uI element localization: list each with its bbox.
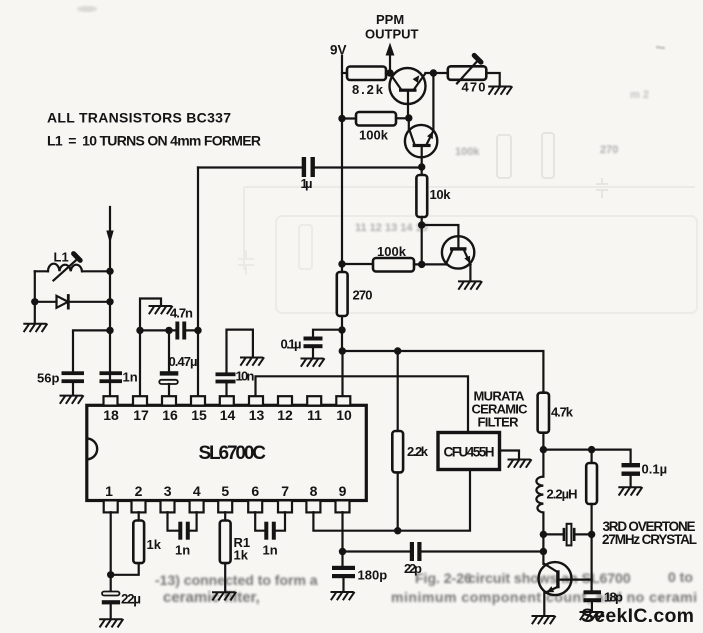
inductor L1 tank left vertical <box>34 271 36 323</box>
capacitor 18p <box>584 590 602 611</box>
svg-text:4: 4 <box>193 483 201 499</box>
svg-text:circuit shows an SL6700: circuit shows an SL6700 <box>468 570 631 586</box>
ground under 22u <box>100 619 123 626</box>
diode D1 <box>35 296 110 309</box>
svg-text:0.47µ: 0.47µ <box>169 354 198 369</box>
wire: 1u coupling line <box>198 166 422 168</box>
capacitor 1u plates <box>302 157 315 177</box>
ground under Q3 <box>459 281 482 288</box>
svg-text:0 to: 0 to <box>668 569 693 585</box>
wire: pin 1 down <box>110 512 112 591</box>
wire: left input vertical with down arrow <box>106 207 113 396</box>
resistor 8.2k <box>342 67 390 81</box>
svg-text:18: 18 <box>103 407 119 423</box>
svg-text:FILTER: FILTER <box>478 415 520 430</box>
svg-text:1k: 1k <box>234 548 249 563</box>
transistor Q3 <box>442 236 474 281</box>
svg-text:6: 6 <box>251 483 259 499</box>
svg-text:L1 = 10 TURNS ON 4mm FORMER: L1 = 10 TURNS ON 4mm FORMER <box>47 133 261 149</box>
pin boxes top row <box>104 396 351 405</box>
node: Q1 junctions <box>386 69 437 76</box>
svg-text:8: 8 <box>310 483 318 499</box>
svg-text:18p: 18p <box>604 590 623 605</box>
svg-text:3: 3 <box>164 483 172 499</box>
node: crystal junctions <box>540 531 596 556</box>
svg-text:0.1µ: 0.1µ <box>642 462 668 477</box>
ground under 0.1u left <box>301 359 324 366</box>
wire: Q1 collector to 470 <box>425 72 447 74</box>
wire: 2.2k drop <box>397 351 399 431</box>
svg-text:11 12 13 14 15: 11 12 13 14 15 <box>355 222 428 234</box>
wire: 9V rail <box>341 56 344 396</box>
wire: pin 8 to filter bottom <box>313 470 470 531</box>
ceramic filter CFU455H box <box>438 433 500 470</box>
svg-text:SeekIC.com: SeekIC.com <box>581 605 694 627</box>
svg-text:10n: 10n <box>236 369 255 384</box>
resistor 10k <box>416 168 427 265</box>
svg-text:m 2: m 2 <box>630 89 649 101</box>
svg-text:270: 270 <box>353 288 373 303</box>
svg-text:CFU455H: CFU455H <box>444 445 495 460</box>
wire: pin 17 vertical and ground bracket <box>140 299 161 397</box>
svg-text:100k: 100k <box>359 128 389 143</box>
svg-text:470: 470 <box>462 80 486 95</box>
node: 2.2k top junction <box>394 347 401 354</box>
node: pin9 junction <box>339 548 346 555</box>
ground at pin 17 bracket <box>149 306 172 313</box>
svg-text:9: 9 <box>339 483 347 499</box>
pin boxes bottom row <box>104 500 350 512</box>
transistor Q4 <box>539 562 592 615</box>
svg-text:12: 12 <box>277 407 293 423</box>
svg-text:100k: 100k <box>455 146 480 158</box>
ground under 0.1u right <box>619 487 642 494</box>
resistor 4.7k <box>538 393 549 450</box>
svg-text:1µ: 1µ <box>301 176 313 191</box>
node: rail junction at 100k <box>338 115 345 122</box>
svg-text:9V: 9V <box>330 43 347 58</box>
capacitor 22p plates <box>410 542 422 561</box>
ground under 56p <box>60 396 83 403</box>
wire: pin 13 to ceramic filter <box>256 376 469 432</box>
svg-text:10: 10 <box>336 407 352 423</box>
svg-text:-13) connected to form a: -13) connected to form a <box>155 572 318 588</box>
node: junctions on oscillator top line <box>540 446 596 453</box>
svg-text:16: 16 <box>162 407 178 423</box>
potentiometer 470 <box>448 55 487 83</box>
svg-text:ALL TRANSISTORS BC337: ALL TRANSISTORS BC337 <box>47 110 231 126</box>
ground under R1 <box>213 592 236 599</box>
crystal X1 <box>543 524 591 546</box>
node: junctions on left vertical <box>31 268 114 335</box>
ground right of filter <box>508 460 531 467</box>
svg-text:SL6700C: SL6700C <box>199 443 267 464</box>
capacitor 1n (pins 3-4) <box>168 512 197 540</box>
svg-text:100k: 100k <box>377 244 407 259</box>
arrow PPM output <box>386 43 395 74</box>
capacitor 10n (pin 14) with ground bracket <box>216 330 253 396</box>
wire: 2.2k bottom <box>397 472 399 530</box>
inductor 2.2uH <box>536 450 543 564</box>
svg-text:4.7k: 4.7k <box>551 405 574 420</box>
svg-text:1: 1 <box>105 483 113 499</box>
svg-text:1k: 1k <box>147 537 162 552</box>
svg-text:OUTPUT: OUTPUT <box>365 27 419 42</box>
node: rail junction at lower 100k <box>338 260 345 267</box>
ground under Q4 <box>532 616 555 623</box>
wire: pin 15 vertical up to 1u line <box>197 168 199 397</box>
wire: L1 top wire <box>35 270 110 272</box>
svg-text:5: 5 <box>221 483 229 499</box>
ground at 10n bracket <box>241 358 264 365</box>
svg-text:1n: 1n <box>175 543 190 558</box>
capacitor 4.7n wire <box>140 329 198 331</box>
capacitor 0.47u (pin 16) electrolytic <box>159 330 178 396</box>
svg-text:PPM: PPM <box>376 12 404 27</box>
svg-text:1n: 1n <box>263 543 278 558</box>
ground under L1 <box>24 324 47 331</box>
pin numbers top row <box>103 407 352 423</box>
bleed-through caption text <box>155 569 697 606</box>
svg-text:2: 2 <box>135 483 143 499</box>
svg-text:270: 270 <box>600 144 618 156</box>
node: Q2 base junction <box>405 114 425 170</box>
capacitor 1n (pin 18) <box>100 371 123 383</box>
svg-text:ceramic filter,: ceramic filter, <box>163 589 260 606</box>
capacitor 180p <box>332 566 355 592</box>
ground under 18p <box>580 612 603 619</box>
svg-text:2.2µH: 2.2µH <box>547 487 578 502</box>
svg-text:17: 17 <box>133 407 149 423</box>
resistor 100k lower <box>342 258 446 272</box>
svg-text:13: 13 <box>249 407 265 423</box>
wire: 22p line pin9 to oscillator <box>343 550 544 552</box>
wire: oscillator top line <box>543 450 630 463</box>
capacitor 1n (pins 6-7) <box>255 512 285 540</box>
node: pin8/2.2k junction <box>394 527 401 534</box>
resistor 1k (pin 2) <box>111 512 144 575</box>
capacitor 0.1u left <box>304 330 343 358</box>
wire: rail branch to 4.7k <box>342 351 543 393</box>
capacitor 0.1u right <box>622 463 641 487</box>
svg-text:7: 7 <box>281 483 289 499</box>
wire: 56p branch <box>73 330 110 371</box>
trimmer arrow of L1 <box>54 254 81 281</box>
svg-text:180p: 180p <box>358 568 388 583</box>
svg-text:8.2k: 8.2k <box>352 82 384 97</box>
node: junctions under 10k <box>418 221 425 268</box>
capacitor 4.7n plates <box>175 322 186 340</box>
svg-text:0.1µ: 0.1µ <box>281 337 302 352</box>
resistor R1 1k (pin 5) <box>220 512 231 592</box>
bleed-through ghost layer (decorative, from page reverse) <box>77 6 697 313</box>
resistor 100k upper <box>342 112 409 126</box>
capacitor 56p <box>62 371 85 395</box>
transistor Q1 <box>390 68 426 118</box>
wire: 10k bottom to Q3 base <box>422 225 459 248</box>
wire: 470 to ground <box>486 73 499 86</box>
node: rail junctions above pin 10 <box>338 326 346 354</box>
pin numbers bottom row <box>105 483 347 499</box>
svg-text:27MHz CRYSTAL: 27MHz CRYSTAL <box>602 532 697 547</box>
svg-text:22µ: 22µ <box>121 592 141 607</box>
resistor 2.2k <box>392 431 403 472</box>
node: pin1/1k junction <box>107 571 114 578</box>
ground right of 470 <box>489 87 512 94</box>
transistor Q2 <box>405 73 437 168</box>
inductor L1 coil <box>48 264 82 272</box>
resistor 270 <box>337 272 348 316</box>
capacitor 22u electrolytic <box>102 592 120 619</box>
svg-text:Fig. 2-26: Fig. 2-26 <box>415 570 472 586</box>
svg-text:L1: L1 <box>54 250 69 265</box>
svg-text:4.7n: 4.7n <box>170 306 193 321</box>
node: 4.7n junctions <box>136 327 201 334</box>
svg-text:22p: 22p <box>404 561 422 576</box>
wire: pin 9 down <box>341 512 343 565</box>
svg-text:1n: 1n <box>123 370 138 385</box>
svg-text:10k: 10k <box>430 187 452 202</box>
svg-text:15: 15 <box>191 407 207 423</box>
svg-text:14: 14 <box>220 407 236 423</box>
resistor unlabeled (oscillator) <box>586 450 597 591</box>
wire: filter right pin to ground <box>500 451 520 460</box>
ground under 180p <box>331 592 354 599</box>
IC U1 SL6700C body <box>87 405 367 500</box>
svg-text:56p: 56p <box>37 371 59 386</box>
svg-text:11: 11 <box>307 407 322 423</box>
svg-text:2.2k: 2.2k <box>407 444 429 459</box>
